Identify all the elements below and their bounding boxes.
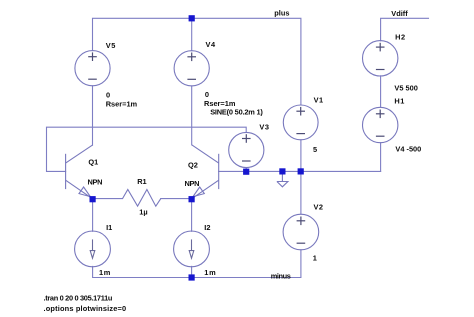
svg-text:1m: 1m: [99, 268, 111, 277]
svg-text:V5: V5: [106, 41, 116, 50]
svg-text:0: 0: [205, 90, 209, 99]
svg-text:H1: H1: [394, 96, 404, 105]
svg-text:NPN: NPN: [88, 178, 103, 187]
svg-text:H2: H2: [395, 33, 406, 42]
svg-text:I1: I1: [106, 223, 112, 232]
svg-text:I2: I2: [204, 223, 210, 232]
svg-text:Q2: Q2: [188, 160, 198, 169]
svg-text:minus: minus: [271, 271, 291, 280]
svg-text:V2: V2: [314, 203, 324, 212]
svg-text:1µ: 1µ: [139, 208, 147, 217]
svg-text:V4: V4: [206, 40, 217, 49]
svg-text:Vdiff: Vdiff: [391, 9, 408, 18]
svg-text:V5 500: V5 500: [394, 84, 417, 93]
svg-text:0: 0: [106, 91, 110, 100]
svg-text:Rser=1m: Rser=1m: [106, 99, 138, 108]
svg-text:Q1: Q1: [88, 158, 98, 167]
svg-text:V1: V1: [314, 95, 324, 104]
svg-text:SINE(0 50.2m 1): SINE(0 50.2m 1): [210, 107, 263, 116]
svg-text:R1: R1: [137, 177, 146, 186]
svg-text:plus: plus: [274, 8, 289, 17]
svg-text:1: 1: [313, 254, 317, 263]
svg-text:.tran 0 20 0 305.1711u: .tran 0 20 0 305.1711u: [44, 294, 113, 303]
svg-text:V3: V3: [259, 123, 269, 132]
svg-text:5: 5: [313, 145, 317, 154]
svg-text:NPN: NPN: [185, 179, 200, 188]
svg-text:V4 -500: V4 -500: [395, 144, 421, 153]
svg-text:.options plotwinsize=0: .options plotwinsize=0: [44, 304, 127, 313]
svg-text:1m: 1m: [204, 268, 216, 277]
